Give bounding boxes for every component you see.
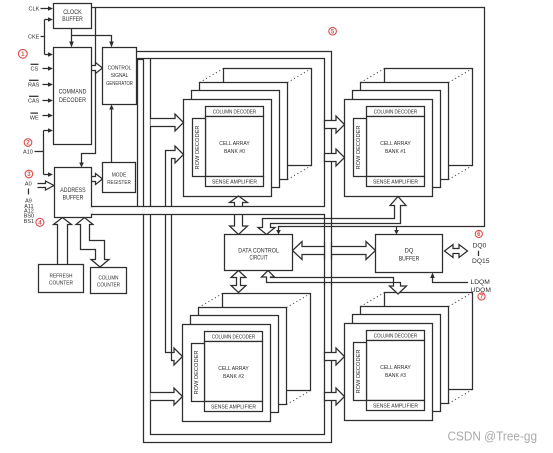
bank #3 middle layers <box>361 307 449 404</box>
bank #1 perspective dotted lines <box>361 69 473 180</box>
svg-text:A0: A0 <box>25 181 32 187</box>
bank #1 row decoder <box>354 119 367 177</box>
bank #1 sense amplifier <box>367 177 425 187</box>
bank #1 cell array box <box>367 117 425 177</box>
svg-text:A10: A10 <box>23 150 33 156</box>
wire: A10 input branching to command decoder and address buffer <box>35 131 49 175</box>
red circled number 2 <box>24 139 32 147</box>
bank #3 row decoder <box>354 343 367 401</box>
svg-text:REGISTER: REGISTER <box>107 180 131 186</box>
svg-text:ROW DECODER: ROW DECODER <box>356 349 362 393</box>
arrow refresh counter up into address buffer <box>54 218 72 265</box>
data bus arrow into DQ buffer left side <box>332 242 376 260</box>
bank #3 perspective dotted lines <box>361 293 473 404</box>
svg-text:CIRCUIT: CIRCUIT <box>250 256 268 262</box>
red circled number 7 <box>478 293 485 300</box>
double arrow between data control circuit and bank #2 <box>231 271 246 293</box>
svg-text:DECODER: DECODER <box>59 98 87 104</box>
block: ADDRESS BUFFER <box>55 168 92 218</box>
red circled number 6 <box>475 230 482 237</box>
svg-text:BUFFER: BUFFER <box>62 17 83 23</box>
bank #3 column decoder <box>367 331 425 341</box>
svg-text:CONTROL: CONTROL <box>108 66 132 72</box>
svg-text:COUNTER: COUNTER <box>49 281 73 287</box>
block: DATA CONTROL CIRCUIT <box>225 235 293 271</box>
data path bank #1 sense amplifier bending left into data control circuit top <box>258 197 406 235</box>
svg-text:MODE: MODE <box>112 173 127 179</box>
bus arrow into bank #1 upper <box>325 116 345 133</box>
wire: clock branch down into address buffer top <box>82 8 96 164</box>
bus arrow into bank #1 lower <box>325 149 345 166</box>
svg-text:ROW DECODER: ROW DECODER <box>195 125 201 169</box>
pin label A0 to A9 range bar <box>28 189 30 195</box>
svg-text:GENERATOR: GENERATOR <box>106 81 133 87</box>
data arrow from bank #0 sense amplifier down to data bus <box>230 196 248 207</box>
svg-text:COLUMN DECODER: COLUMN DECODER <box>374 109 418 115</box>
svg-text:ROW DECODER: ROW DECODER <box>194 350 200 394</box>
svg-text:CLK: CLK <box>29 7 40 13</box>
svg-text:SENSE AMPLIFIER: SENSE AMPLIFIER <box>211 404 256 410</box>
cell array bank #3 stacked-layer back box <box>385 293 473 390</box>
svg-text:BUFFER: BUFFER <box>399 256 420 262</box>
svg-text:CS: CS <box>30 67 38 73</box>
bank #0 column decoder <box>206 107 264 117</box>
svg-text:BS1: BS1 <box>24 219 34 225</box>
wire: vertical bus lines crossing arrow mouths (restored) <box>325 242 332 260</box>
bank #1 column decoder <box>367 107 425 117</box>
bus arrow into bank #0 upper <box>151 114 184 131</box>
cell array bank #1 stacked-layer back box <box>385 69 473 166</box>
block: MODE REGISTER <box>103 163 136 193</box>
bank #2 perspective dotted lines <box>199 294 311 405</box>
bank #0 row decoder <box>193 119 206 177</box>
block: COLUMN COUNTER <box>91 268 127 294</box>
svg-text:CSDN @Tree-gg: CSDN @Tree-gg <box>448 429 538 444</box>
wire: clock branch into DQ buffer top <box>396 227 398 231</box>
bank #2 sense amplifier <box>205 402 263 412</box>
svg-text:LDQM: LDQM <box>471 279 491 286</box>
svg-text:1: 1 <box>21 52 25 58</box>
svg-text:CELL ARRAY: CELL ARRAY <box>380 365 411 371</box>
block: CLOCK BUFFER <box>54 4 92 29</box>
wire: control bus inner line from CSG to address bus join <box>92 59 325 207</box>
arrow between address buffer and column counter <box>76 218 109 268</box>
bank #0 middle layers <box>200 83 288 180</box>
svg-text:COLUMN: COLUMN <box>99 276 119 282</box>
svg-text:COLUMN DECODER: COLUMN DECODER <box>374 333 418 339</box>
svg-text:COLUMN DECODER: COLUMN DECODER <box>213 109 257 115</box>
open bus mouth: gap in left vertical across address bus channel <box>143 207 145 214</box>
svg-text:REFRESH: REFRESH <box>50 273 73 279</box>
data bus arrow into data control circuit right side <box>293 242 325 260</box>
red circled number 5 <box>329 27 337 35</box>
red circled number 4 <box>36 218 44 226</box>
bus arrow into bank #2 lower <box>151 388 183 405</box>
svg-text:COLUMN DECODER: COLUMN DECODER <box>212 334 256 340</box>
svg-text:BANK #3: BANK #3 <box>385 373 406 379</box>
cell array bank #2 stacked-layer back box <box>223 294 311 391</box>
bank #2 row decoder <box>192 344 205 402</box>
wire: mode register up to control signal generator <box>111 109 113 163</box>
wire: CLK input <box>41 8 49 10</box>
wire: RAS input <box>43 84 49 86</box>
wire: control bus outer loop around the diagram <box>137 52 332 443</box>
bank #2 front box <box>183 325 271 422</box>
block: DQ BUFFER <box>376 235 443 273</box>
red circled number 1 <box>18 49 27 58</box>
bank #3 front box <box>345 324 433 421</box>
address input arrow into address buffer <box>38 181 55 190</box>
bank #0 perspective dotted lines <box>200 69 312 180</box>
bank #1 front box <box>345 100 433 197</box>
block: REFRESH COUNTER <box>39 265 84 293</box>
arrow command decoder to control signal generator <box>92 63 103 74</box>
svg-text:COUNTER: COUNTER <box>97 283 120 289</box>
svg-text:DQ15: DQ15 <box>472 258 490 265</box>
svg-text:SENSE AMPLIFIER: SENSE AMPLIFIER <box>373 403 418 409</box>
svg-text:CAS: CAS <box>28 99 40 105</box>
bus arrow into bank #2 upper, from inner vertical pair <box>166 215 183 366</box>
svg-text:CELL ARRAY: CELL ARRAY <box>380 141 411 147</box>
wire: LDQM UDQM input into DQ buffer bottom <box>433 278 469 283</box>
wire: clock line from clock buffer right across top, down right side to DQ buffer and data control circuit <box>92 8 485 231</box>
bank #0 front box <box>184 100 272 197</box>
wire: WE input <box>43 115 49 117</box>
svg-text:DQ: DQ <box>405 249 414 255</box>
bank #1 middle layers <box>361 83 449 180</box>
bus arrow into bank #3 lower <box>325 388 345 405</box>
block: CONTROL SIGNAL GENERATOR <box>103 48 137 105</box>
svg-text:CLOCK: CLOCK <box>63 10 81 16</box>
arrow address buffer to mode register <box>92 174 103 185</box>
wire: clock buffer to command decoder and control signal generator <box>72 29 112 43</box>
svg-text:ADDRESS: ADDRESS <box>60 188 85 194</box>
svg-text:WE: WE <box>30 115 39 121</box>
svg-text:CELL ARRAY: CELL ARRAY <box>218 366 249 372</box>
svg-text:SENSE AMPLIFIER: SENSE AMPLIFIER <box>373 179 418 185</box>
bank #0 sense amplifier <box>206 177 264 187</box>
svg-text:CKE: CKE <box>28 35 40 41</box>
bank #3 sense amplifier <box>367 401 425 411</box>
svg-text:SENSE AMPLIFIER: SENSE AMPLIFIER <box>212 179 257 185</box>
wire: address bus from address buffer wrapping around bottom <box>92 215 325 435</box>
bank #2 cell array box <box>205 342 263 402</box>
cell array bank #0 stacked-layer back box <box>224 69 312 166</box>
wire: CS input <box>43 68 49 70</box>
block: COMMAND DECODER <box>54 48 92 145</box>
svg-text:BANK #0: BANK #0 <box>224 149 245 155</box>
arrow from data control circuit bending right down into bank #3 top <box>262 271 407 295</box>
bank #3 cell array box <box>367 341 425 401</box>
bus arrow into bank #0 lower, from inner vertical pair <box>166 146 184 207</box>
svg-text:DATA CONTROL: DATA CONTROL <box>238 248 279 254</box>
wire: CKE input branching to clock buffer and command decoder <box>41 20 49 55</box>
bus arrow into bank #3 upper <box>325 348 345 365</box>
svg-text:DQ0: DQ0 <box>473 243 487 250</box>
svg-text:CELL ARRAY: CELL ARRAY <box>219 141 250 147</box>
svg-text:BANK #2: BANK #2 <box>223 374 244 380</box>
svg-text:BUFFER: BUFFER <box>63 195 84 201</box>
svg-text:SIGNAL: SIGNAL <box>111 73 129 79</box>
svg-text:BANK #1: BANK #1 <box>385 149 406 155</box>
svg-text:ROW DECODER: ROW DECODER <box>356 125 362 169</box>
double arrow DQ buffer to DQ pins <box>445 245 468 258</box>
data bus arrow down into data control circuit top <box>230 215 248 235</box>
wire: CAS input <box>43 100 49 102</box>
bank #2 middle layers <box>199 308 287 405</box>
red circled number 3 <box>25 170 33 178</box>
svg-text:COMMAND: COMMAND <box>59 90 87 96</box>
svg-text:RAS: RAS <box>28 83 40 89</box>
bank #2 column decoder <box>205 332 263 342</box>
wire: left inner vertical bus line <box>150 59 152 207</box>
bank #0 cell array box <box>206 117 264 177</box>
